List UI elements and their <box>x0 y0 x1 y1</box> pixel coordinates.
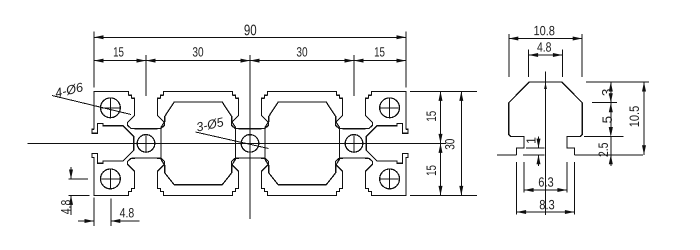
svg-text:8.3: 8.3 <box>539 197 555 212</box>
svg-text:10.5: 10.5 <box>627 106 642 128</box>
center cross of top-right hole <box>379 97 400 118</box>
dimension 4.8 slot detail <box>529 40 563 77</box>
svg-text:15: 15 <box>424 111 439 122</box>
svg-text:4.8: 4.8 <box>537 40 552 55</box>
detail surface line left <box>497 154 517 156</box>
centerline tick left hole <box>145 135 147 151</box>
dimension 6.3 detail <box>524 162 567 193</box>
cavity void right-middle <box>265 102 340 185</box>
corner hole top-right dia6 <box>380 98 400 118</box>
profile outline with T-slots <box>92 91 408 195</box>
label 3-dia5 center holes with leader <box>195 114 269 148</box>
dimensions 15 15 right side <box>410 91 477 195</box>
dimension 10.8 <box>509 23 582 77</box>
detail centerline <box>545 72 547 216</box>
svg-text:15: 15 <box>374 44 385 59</box>
dimensions 15 30 30 15 top <box>94 44 406 96</box>
center hole left dia5 <box>137 135 155 153</box>
dimension 90 overall width <box>94 22 406 87</box>
svg-text:15: 15 <box>424 165 439 176</box>
dimension 4.8 horizontal hole offset <box>78 198 140 227</box>
svg-text:30: 30 <box>443 139 458 150</box>
dimension 8.3 detail <box>517 162 575 215</box>
label 4-dia6 corner holes with leader <box>52 79 131 114</box>
dimension 30 overall height <box>443 91 464 195</box>
detail surface line right <box>574 154 643 156</box>
svg-text:30: 30 <box>192 44 203 59</box>
center hole right dia5 <box>345 135 363 153</box>
centerline tick right hole <box>353 135 355 151</box>
corner hole bottom-left dia6 <box>101 169 121 189</box>
svg-text:30: 30 <box>296 44 307 59</box>
vertical centerline <box>249 67 251 219</box>
dimension 10.5 overall detail <box>627 82 646 155</box>
svg-text:90: 90 <box>244 22 257 39</box>
svg-text:4.8: 4.8 <box>59 200 74 215</box>
corner hole bottom-right dia6 <box>380 169 400 189</box>
cavity void left-middle <box>161 102 236 185</box>
svg-text:10.8: 10.8 <box>533 23 555 38</box>
dimensions 3 5 2.5 detail right <box>584 82 649 166</box>
svg-text:3: 3 <box>600 89 615 96</box>
center cross of bottom-right hole <box>379 168 400 189</box>
center hole middle dia5 <box>241 135 259 153</box>
svg-text:3-Ø5: 3-Ø5 <box>195 114 226 135</box>
svg-text:6.3: 6.3 <box>538 175 554 190</box>
detail centerline arrow <box>544 83 547 90</box>
svg-text:5: 5 <box>600 116 615 123</box>
svg-text:2.5: 2.5 <box>596 143 611 158</box>
corner hole top-left dia6 <box>101 98 121 118</box>
dimension 1 lip detail <box>523 137 545 167</box>
dimension 4.8 vertical hole offset <box>59 167 90 215</box>
svg-text:1: 1 <box>525 137 539 144</box>
horizontal centerline <box>28 142 447 144</box>
svg-text:15: 15 <box>113 44 124 59</box>
detail T-slot outline <box>509 82 582 155</box>
center cross of bottom-left hole <box>100 168 121 189</box>
svg-text:4-Ø6: 4-Ø6 <box>53 79 85 100</box>
svg-text:4.8: 4.8 <box>120 205 135 220</box>
center cross of top-left hole <box>100 97 121 118</box>
